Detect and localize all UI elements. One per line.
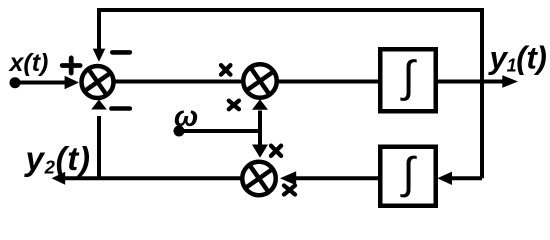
- arrowhead down into multiplier M2 top: [252, 145, 268, 158]
- sign times upper-left of M1: [221, 65, 230, 74]
- arrowhead right into summer left: [65, 76, 79, 90]
- wire: elbow into integrator 2 from right: [450, 176, 482, 180]
- wire: feedback tap from y1 line up, across top, down into summer: [99, 10, 482, 178]
- multiplier M2: [242, 162, 276, 196]
- svg-text:x(t): x(t): [8, 49, 49, 77]
- wire: omega branch vertical: [258, 111, 262, 146]
- integrator U1 box: [380, 49, 436, 111]
- svg-text:y1(t): y1(t): [488, 39, 547, 75]
- wire: y2 output line: [65, 176, 259, 180]
- arrowhead down into summer top: [93, 49, 106, 62]
- arrowhead left into multiplier M2: [280, 171, 296, 185]
- arrowhead left into integrator 2: [437, 172, 452, 185]
- arrowhead up into summer bottom: [91, 100, 107, 110]
- sign times lower-right of M2: [284, 186, 295, 195]
- sign plus at summer input: [62, 58, 80, 73]
- wire: x(t) input line: [15, 81, 66, 85]
- wire: feedback vertical up into summer bottom: [97, 116, 101, 178]
- multiplier M1: [243, 64, 277, 98]
- svg-text:ω: ω: [174, 101, 198, 133]
- sign minus at summer bottom: [111, 106, 129, 111]
- integrator U2 box: [380, 147, 436, 206]
- wire: multiplier M1 to integrator 1: [260, 80, 380, 84]
- node: x(t) input dot: [10, 77, 21, 88]
- wire: summer to multiplier M1: [98, 80, 261, 84]
- sign times upper-right of M2: [271, 146, 281, 156]
- arrowhead left y2 output: [52, 172, 66, 185]
- svg-text:y2(t): y2(t): [24, 140, 91, 177]
- arrowhead up into multiplier M1 bottom: [252, 99, 268, 110]
- summing junction S1: [82, 66, 114, 98]
- arrowhead right y1 output: [502, 75, 518, 88]
- node: omega input dot: [174, 126, 185, 137]
- wire: omega to branch point: [179, 129, 260, 133]
- sign times lower-left of M1: [229, 101, 239, 110]
- wire: integrator 1 output y1: [436, 80, 504, 84]
- sign minus at summer top: [112, 50, 130, 55]
- wire: integrator 2 to multiplier M2: [293, 176, 380, 180]
